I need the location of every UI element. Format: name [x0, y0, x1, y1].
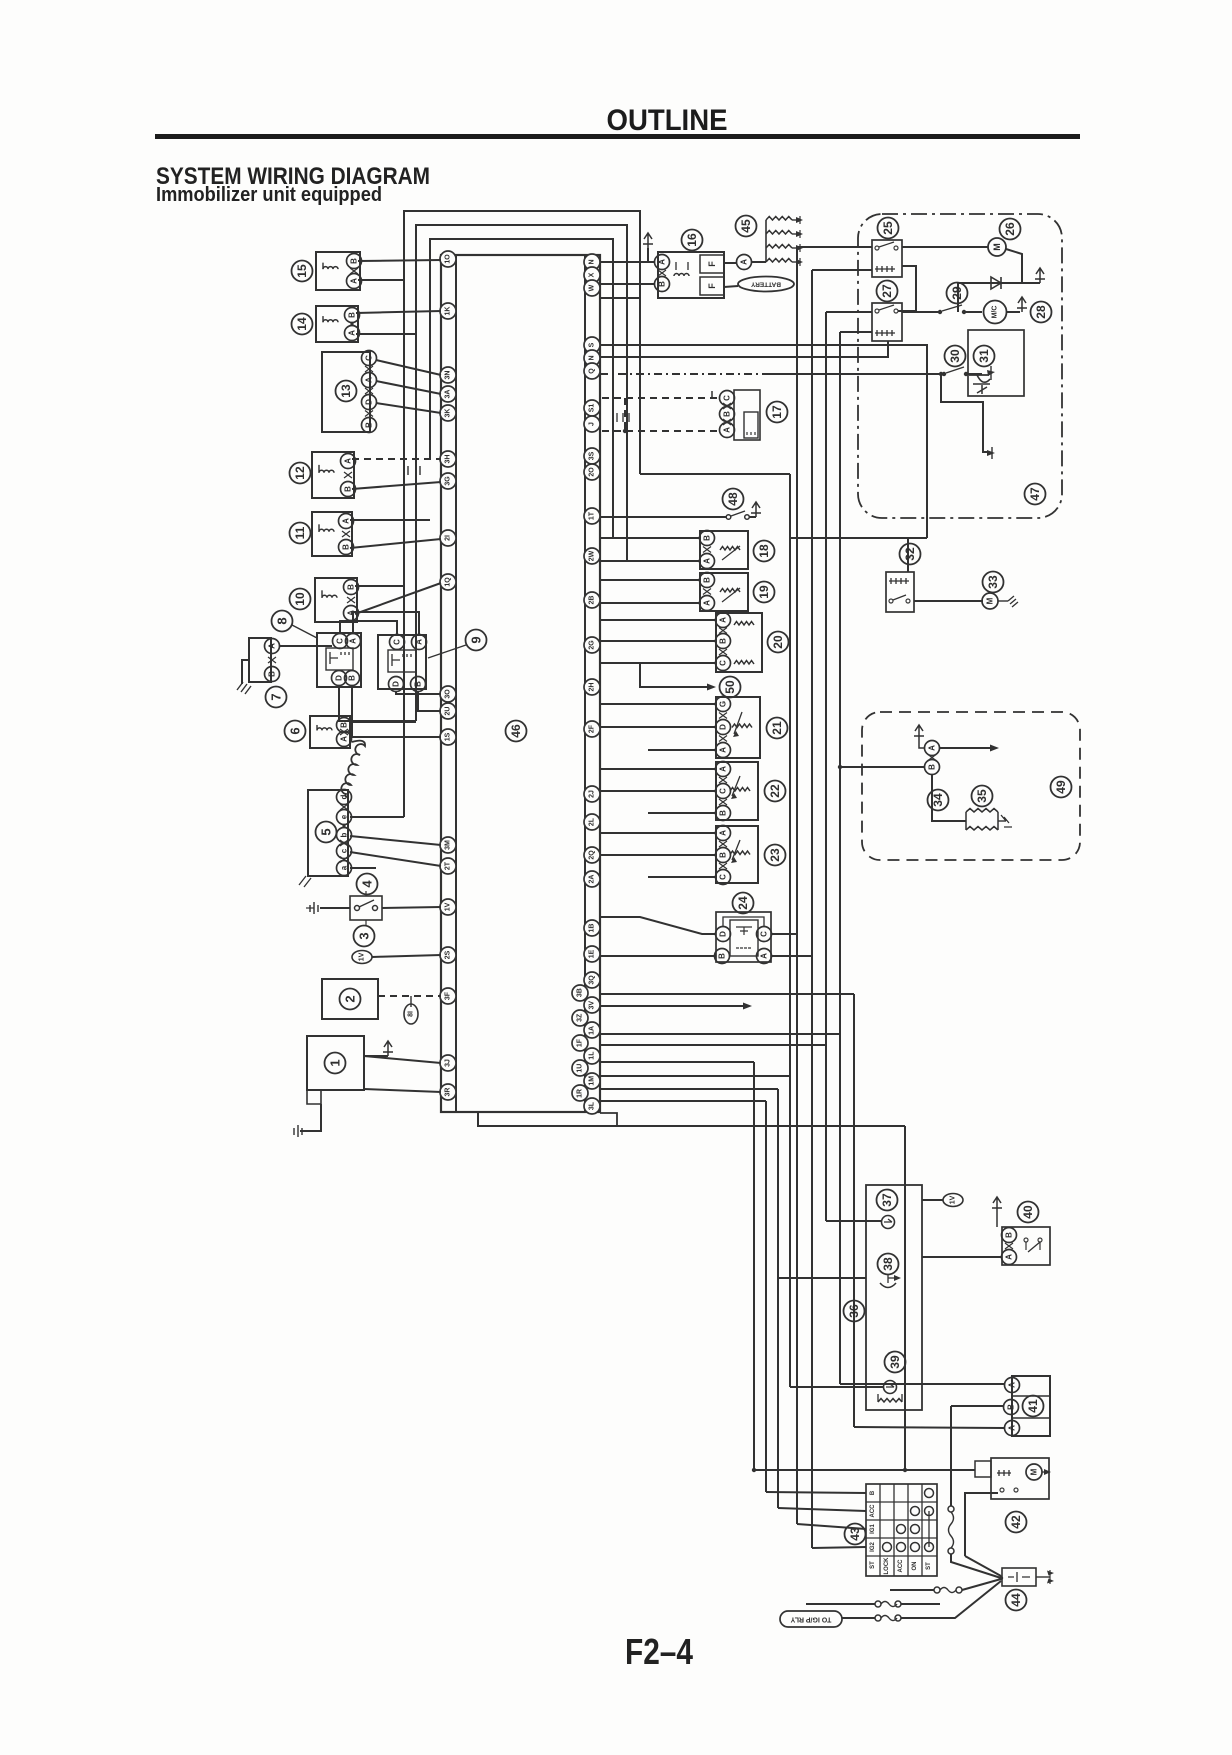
- bus wire A x797: [796, 247, 798, 1524]
- wire rail exit y1101: [600, 1100, 766, 1102]
- valve symbol 38: [880, 1283, 896, 1288]
- svg-text:N: N: [589, 259, 596, 264]
- svg-text:G: G: [719, 701, 728, 707]
- wire rail to 19B: [600, 579, 700, 581]
- svg-text:B: B: [344, 486, 353, 492]
- svg-text:3: 3: [357, 932, 372, 939]
- component 21 sensor: [716, 697, 760, 758]
- wire 13C to 3N: [376, 360, 441, 375]
- svg-text:F2–4: F2–4: [625, 1631, 693, 1672]
- label 47: [1025, 484, 1046, 505]
- wire rail y345 to V927: [600, 345, 927, 538]
- svg-text:a: a: [340, 865, 349, 870]
- wire 27coil to busD: [840, 331, 872, 333]
- svg-text:A: A: [415, 639, 424, 645]
- component 48 switch: [716, 516, 726, 518]
- label 46: [506, 721, 527, 742]
- label 49: [1051, 777, 1072, 798]
- fuse mid: [875, 1601, 881, 1607]
- label 4: [357, 874, 378, 895]
- no-connect ticks near 12: [408, 466, 420, 475]
- component 19 sensor: [700, 573, 748, 611]
- label 45: [736, 216, 757, 237]
- wire 1 to 3R: [364, 1089, 441, 1092]
- svg-text:33: 33: [986, 575, 1000, 589]
- wire bridge 8A-9A: [353, 612, 419, 635]
- ECU left-rail pin circles: [440, 251, 456, 267]
- wire 1 to 3J: [364, 1056, 441, 1063]
- svg-text:ST: ST: [926, 1562, 932, 1570]
- svg-text:B: B: [719, 638, 728, 644]
- wire busE to 41A2: [854, 1427, 1004, 1428]
- bus wire I x790: [789, 474, 791, 1076]
- svg-text:2O: 2O: [589, 467, 596, 477]
- ground right of 33: [998, 600, 1008, 602]
- wire ground to 3: [320, 907, 350, 909]
- power arrow at 1: [364, 1055, 388, 1057]
- wire 12A dashed to 3H: [352, 458, 441, 460]
- label 7: [266, 687, 287, 708]
- svg-text:3V: 3V: [589, 1001, 596, 1010]
- label 33: [983, 572, 1004, 593]
- svg-text:9: 9: [469, 636, 484, 643]
- svg-text:OUTLINE: OUTLINE: [607, 104, 728, 137]
- diode: [991, 277, 1001, 289]
- fuse bottom: [875, 1615, 881, 1621]
- wire arrow y1006: [600, 1005, 746, 1007]
- wire fuse to 44 upper: [962, 1579, 1001, 1590]
- wire top frame inner: [430, 239, 613, 538]
- oval 1V right: [943, 1194, 963, 1207]
- connector oval 8I: [404, 1004, 418, 1024]
- label 3: [354, 926, 375, 947]
- wire to fuse mid: [806, 1603, 875, 1605]
- wire 25 to motor 26: [902, 246, 988, 248]
- svg-text:1L: 1L: [589, 1051, 596, 1060]
- svg-text:16: 16: [685, 233, 699, 247]
- component 22 sensor: [716, 762, 758, 820]
- motor 26: [988, 238, 1006, 256]
- wire rail to 48: [600, 516, 716, 518]
- wire rail y474 to busI: [640, 473, 790, 475]
- wire 8B to 1S: [352, 685, 441, 737]
- wire rail to 21G: [600, 703, 716, 705]
- dashed enclosure 47: [858, 214, 1062, 518]
- wire 42 down: [965, 1493, 998, 1556]
- svg-text:B: B: [723, 411, 732, 417]
- svg-text:A: A: [703, 600, 712, 606]
- svg-text:12: 12: [293, 466, 307, 480]
- svg-text:D: D: [392, 681, 401, 687]
- wire 34B to 35: [932, 774, 966, 821]
- wire oval to 2S: [372, 955, 441, 957]
- svg-text:D: D: [335, 675, 344, 681]
- ground at 3: [310, 902, 318, 914]
- wire busA to 43: [797, 1524, 866, 1529]
- wire 5b to 3M: [350, 836, 441, 845]
- bus wire J x905: [904, 1126, 906, 1470]
- svg-text:14: 14: [295, 317, 309, 331]
- svg-text:B: B: [719, 852, 728, 858]
- wire rail exit y1034: [600, 1033, 840, 1035]
- svg-text:32: 32: [903, 547, 917, 561]
- svg-text:1A: 1A: [589, 1026, 596, 1035]
- wire busH to 38: [778, 1277, 866, 1279]
- label 31: [974, 346, 995, 367]
- svg-text:23: 23: [768, 848, 782, 862]
- svg-text:B: B: [268, 671, 277, 677]
- svg-text:17: 17: [770, 405, 784, 419]
- svg-text:B: B: [719, 810, 728, 816]
- wire busI to 32: [790, 537, 927, 539]
- component 32 relay: [886, 572, 914, 612]
- power arrow in 49: [914, 725, 924, 740]
- svg-text:42: 42: [1009, 1515, 1023, 1529]
- svg-text:W: W: [589, 284, 596, 291]
- ground at 40: [992, 1197, 1002, 1212]
- wire rail to 16B: [600, 283, 654, 285]
- wire rail exit y1076: [600, 1075, 790, 1077]
- svg-text:B: B: [703, 577, 712, 583]
- ground at 48: [751, 502, 761, 517]
- svg-text:2G: 2G: [589, 640, 596, 650]
- svg-text:13: 13: [339, 384, 353, 398]
- svg-text:A: A: [344, 458, 353, 464]
- component 11 sensor: [312, 512, 352, 556]
- wire to 50: [640, 663, 712, 687]
- component 14 switch: [316, 306, 358, 342]
- svg-text:B: B: [928, 764, 937, 770]
- svg-text:1F: 1F: [577, 1038, 584, 1047]
- svg-text:e: e: [340, 814, 349, 819]
- stadium label bottom: [780, 1611, 842, 1627]
- svg-text:24: 24: [736, 896, 750, 910]
- wire 8D down: [339, 685, 416, 721]
- wire A to plugs: [752, 261, 766, 263]
- svg-text:A: A: [350, 278, 359, 284]
- bus wire D x840: [839, 332, 841, 1384]
- svg-text:41: 41: [1026, 1399, 1040, 1413]
- component 5 unit: [308, 790, 348, 876]
- svg-text:1: 1: [328, 1059, 343, 1066]
- label 43: [845, 1524, 866, 1545]
- svg-text:30: 30: [948, 349, 962, 363]
- wire rail to 16A: [600, 261, 654, 263]
- contact 29: [938, 310, 942, 314]
- svg-text:B: B: [348, 675, 357, 681]
- wire 12B to 3G: [352, 482, 441, 489]
- svg-text:c: c: [340, 848, 349, 853]
- svg-text:1S: 1S: [445, 732, 452, 741]
- svg-text:1T: 1T: [589, 511, 596, 520]
- svg-text:M: M: [1030, 1468, 1039, 1475]
- bus wire I lower: [789, 1076, 791, 1387]
- svg-text:X: X: [589, 272, 596, 277]
- motor M/C: [984, 301, 1007, 324]
- svg-text:1M: 1M: [589, 1076, 596, 1086]
- wire busH to 43: [778, 1508, 866, 1511]
- wire rail to 19A: [600, 602, 700, 604]
- component 45 glow plugs: [765, 220, 767, 262]
- wire coil 6A to 5d: [341, 741, 365, 797]
- ECU right-rail pin circles: [584, 254, 600, 270]
- junction at 44: [999, 1576, 1003, 1580]
- wire 25coil to busB: [812, 269, 872, 271]
- fuse 41-44: [948, 1506, 954, 1512]
- label 38: [878, 1254, 899, 1275]
- svg-text:50: 50: [723, 680, 737, 694]
- bus wire F x754: [753, 1062, 755, 1470]
- svg-text:M: M: [992, 243, 1002, 251]
- wire 36 to 40A: [922, 1256, 1002, 1258]
- svg-text:F: F: [707, 261, 717, 267]
- component 24 relay: [716, 912, 771, 962]
- wire 26 down: [1006, 249, 1022, 283]
- wire top frame middle: [416, 225, 627, 721]
- label 26: [1000, 219, 1021, 240]
- bus wire C x826: [825, 312, 827, 1221]
- page header rule: [155, 134, 1080, 139]
- svg-text:3B: 3B: [577, 988, 584, 997]
- svg-text:A: A: [719, 830, 728, 836]
- component 40 switch: [1002, 1227, 1050, 1265]
- wire 10A to 1Q: [355, 583, 441, 614]
- wire bridge 24: [723, 917, 764, 927]
- svg-text:A: A: [268, 643, 277, 649]
- motor 33: [982, 593, 998, 609]
- label 29: [947, 283, 968, 304]
- wire fuse bottom to 44: [901, 1581, 1001, 1618]
- ECU connector block U46 outline: [441, 255, 600, 1112]
- svg-text:2T: 2T: [445, 861, 452, 870]
- double arrow at 44: [1036, 1576, 1050, 1578]
- svg-text:3O: 3O: [445, 689, 452, 699]
- wire bridge 8C-9C: [340, 621, 397, 635]
- svg-text:A: A: [740, 259, 749, 265]
- svg-text:A: A: [1008, 1382, 1017, 1388]
- svg-text:C: C: [719, 660, 728, 666]
- svg-text:1K: 1K: [445, 307, 452, 316]
- wire 5a stub: [350, 867, 376, 869]
- svg-text:46: 46: [509, 724, 523, 738]
- svg-text:TO IG/P RLY: TO IG/P RLY: [790, 1616, 831, 1623]
- svg-text:B: B: [342, 544, 351, 550]
- bus wire B x812: [811, 270, 813, 1548]
- svg-text:44: 44: [1009, 1593, 1023, 1607]
- resistor 39: [878, 1394, 902, 1402]
- wire busC to 37: [826, 1220, 882, 1222]
- svg-text:2S: 2S: [445, 950, 452, 959]
- svg-text:7: 7: [269, 693, 284, 700]
- svg-text:B: B: [1005, 1232, 1014, 1238]
- wire busG to 43: [766, 1492, 866, 1493]
- label 9: [466, 630, 487, 651]
- wire 31 down to ground: [941, 374, 988, 452]
- wire 5c to 2T: [350, 852, 441, 866]
- svg-text:3N: 3N: [445, 371, 452, 380]
- svg-text:B: B: [348, 312, 357, 318]
- svg-text:ON: ON: [912, 1562, 918, 1571]
- connector 34: [919, 740, 924, 748]
- svg-text:10: 10: [293, 592, 307, 606]
- wire 11A: [350, 519, 430, 521]
- svg-text:3J: 3J: [445, 1059, 452, 1067]
- wire rail exit y994: [600, 993, 854, 995]
- wire dashed to 17C: [602, 397, 719, 399]
- svg-text:1O: 1O: [445, 254, 452, 264]
- label 35: [972, 786, 993, 807]
- svg-text:2I: 2I: [445, 535, 452, 541]
- power arrow diode: [1035, 268, 1045, 283]
- arrow below 31: [987, 450, 995, 456]
- svg-text:A: A: [719, 617, 728, 623]
- svg-text:47: 47: [1028, 487, 1042, 501]
- svg-text:A: A: [719, 766, 728, 772]
- label 30: [945, 346, 966, 367]
- ground at 1: [294, 1125, 302, 1137]
- wire to 21A: [648, 749, 716, 751]
- component 15 switch: [316, 252, 360, 290]
- wire 16 to A pill: [724, 262, 737, 264]
- svg-text:A: A: [365, 377, 374, 383]
- label 41: [1023, 1396, 1044, 1417]
- svg-text:6: 6: [288, 727, 303, 734]
- component 35 resistors: [966, 812, 998, 830]
- svg-text:B: B: [365, 422, 374, 428]
- svg-text:3R: 3R: [445, 1088, 452, 1097]
- svg-text:1V: 1V: [950, 1195, 957, 1204]
- component 2 unit: [322, 979, 378, 1019]
- svg-text:C: C: [719, 874, 728, 880]
- svg-text:48: 48: [726, 492, 740, 506]
- component 7 sensor: [249, 638, 271, 682]
- label 25: [878, 218, 899, 239]
- svg-text:3L: 3L: [589, 1101, 596, 1110]
- power arrow after M/C: [1007, 311, 1020, 313]
- svg-text:B: B: [350, 258, 359, 264]
- diode wire: [958, 282, 1040, 284]
- component 25 relay: [872, 240, 902, 277]
- svg-text:31: 31: [977, 349, 991, 363]
- bus wire G x766: [765, 1101, 767, 1492]
- wire 9B to 2U: [418, 691, 441, 711]
- svg-text:LOCK: LOCK: [884, 1557, 890, 1575]
- wire 5e: [350, 816, 404, 818]
- svg-text:B: B: [1007, 1404, 1016, 1410]
- svg-text:D: D: [719, 931, 728, 937]
- component 3 switch: [350, 896, 382, 920]
- svg-text:C: C: [336, 638, 345, 644]
- svg-text:45: 45: [739, 219, 753, 233]
- svg-text:29: 29: [950, 286, 964, 300]
- svg-text:D: D: [719, 724, 728, 730]
- wire 15A: [358, 279, 404, 281]
- svg-text:2: 2: [343, 995, 358, 1002]
- svg-text:18: 18: [757, 544, 771, 558]
- svg-text:B: B: [414, 681, 423, 687]
- svg-text:2J: 2J: [589, 790, 596, 798]
- svg-text:Q: Q: [589, 368, 596, 374]
- svg-text:A: A: [658, 259, 667, 265]
- svg-text:15: 15: [295, 264, 309, 278]
- svg-text:A: A: [349, 638, 358, 644]
- wire 7A to 8: [279, 645, 332, 647]
- wire to 20C: [600, 662, 716, 664]
- wire 32 to 33: [914, 600, 983, 602]
- svg-text:IG2: IG2: [870, 1542, 876, 1552]
- wire rail exit y298: [600, 297, 640, 299]
- svg-text:2U: 2U: [445, 707, 452, 716]
- wire rail to 24B: [600, 955, 716, 957]
- wire 2 dashed to 3F: [378, 995, 441, 997]
- svg-text:27: 27: [880, 284, 894, 298]
- wire rail to 18A: [600, 560, 700, 562]
- svg-text:4: 4: [360, 880, 375, 888]
- wire to 23C: [648, 876, 716, 878]
- svg-text:37: 37: [880, 1193, 894, 1207]
- wire 24C to busA: [771, 933, 797, 935]
- svg-text:J: J: [589, 422, 596, 426]
- wire rail exit y1045: [600, 1044, 826, 1046]
- component 9 relay: [378, 635, 426, 689]
- wire 34A arrow: [939, 747, 994, 749]
- label 40: [1018, 1202, 1039, 1223]
- wire 14A: [356, 333, 416, 335]
- wire 3 to 1V: [382, 907, 441, 908]
- label 44: [1006, 1590, 1027, 1611]
- label 17: [767, 402, 788, 423]
- svg-text:39: 39: [888, 1355, 902, 1369]
- svg-text:3A: 3A: [445, 390, 452, 399]
- svg-text:B: B: [340, 722, 349, 728]
- svg-text:A: A: [1005, 1254, 1014, 1260]
- connector oval 1V: [352, 951, 372, 964]
- svg-text:1V: 1V: [445, 902, 452, 911]
- svg-text:ST: ST: [870, 1561, 876, 1569]
- wire 13D to 3K: [376, 403, 441, 413]
- wire 10B: [355, 585, 404, 587]
- component 20 sensor: [716, 613, 762, 672]
- component 8 relay: [317, 633, 361, 687]
- component 17 relay: [720, 391, 735, 406]
- ground at 5: [299, 876, 311, 887]
- svg-text:2H: 2H: [589, 683, 596, 692]
- svg-text:C: C: [365, 355, 374, 361]
- svg-text:49: 49: [1054, 780, 1068, 794]
- label 32: [900, 544, 921, 565]
- svg-text:35: 35: [975, 789, 989, 803]
- component 27 relay: [872, 303, 902, 341]
- svg-text:C: C: [393, 639, 402, 645]
- svg-text:2F: 2F: [589, 724, 596, 733]
- wire 6B: [350, 721, 416, 723]
- svg-text:B: B: [718, 953, 727, 959]
- fuse top: [934, 1587, 940, 1593]
- svg-text:C: C: [760, 931, 769, 937]
- label 8: [272, 611, 293, 632]
- svg-text:5: 5: [319, 828, 334, 835]
- svg-text:34: 34: [931, 793, 945, 807]
- wire long y1470: [754, 1469, 975, 1471]
- svg-text:3Z: 3Z: [577, 1013, 584, 1022]
- wire 9D to 3O: [396, 691, 441, 694]
- component 41 connector: [1012, 1376, 1050, 1436]
- wire 24A to busB: [771, 955, 812, 957]
- wire rail y357 to 27: [600, 341, 888, 357]
- wire 41 fuse to 44: [951, 1554, 1001, 1578]
- svg-text:1V: 1V: [359, 952, 366, 961]
- svg-text:M/C: M/C: [992, 306, 999, 319]
